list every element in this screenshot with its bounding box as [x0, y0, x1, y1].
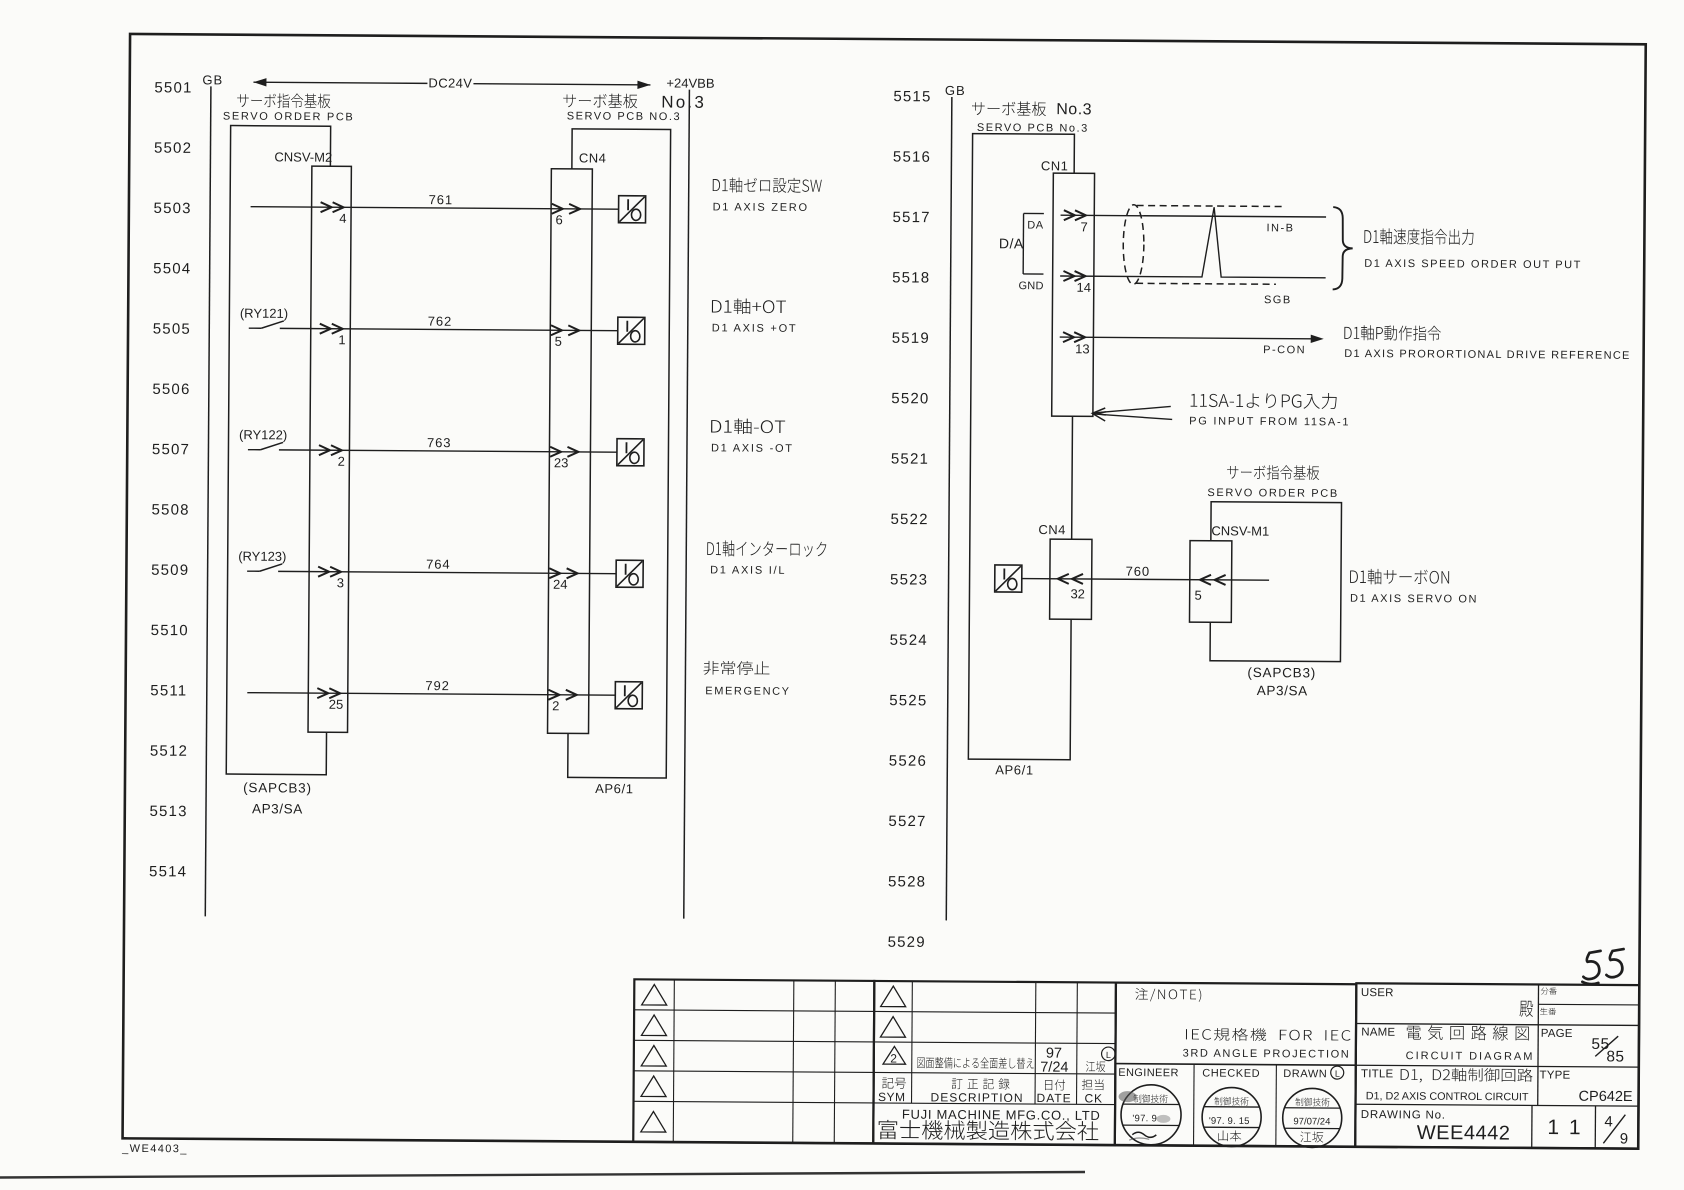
company Fuji Kikai Seizo KK — [879, 1120, 1099, 1141]
svg-text:D1 AXIS I/L: D1 AXIS I/L — [710, 564, 786, 577]
I/O symbol row 763 — [617, 439, 644, 466]
svg-text:AP6/1: AP6/1 — [995, 762, 1034, 777]
label servo PCB No.3 (right) — [972, 101, 1046, 116]
svg-text:L: L — [1106, 1050, 1111, 1060]
svg-text:GB: GB — [945, 83, 966, 98]
svg-text:761: 761 — [429, 192, 453, 207]
header DATE — [1045, 1079, 1065, 1090]
arrow chevrons into CNSV-M2 pin 3 — [318, 567, 341, 577]
svg-text:3RD ANGLE PROJECTION: 3RD ANGLE PROJECTION — [1183, 1048, 1351, 1061]
svg-text:5517: 5517 — [892, 209, 930, 226]
revision table left — [633, 979, 874, 1143]
svg-text:(RY122): (RY122) — [239, 427, 287, 442]
I/O symbol wire 760 — [995, 565, 1022, 592]
svg-text:CN4: CN4 — [579, 150, 607, 165]
arrow chevrons into CNSV-M2 pin 25 — [317, 688, 340, 698]
revision CK Esaka — [1086, 1061, 1105, 1072]
svg-text:D1 AXIS ZERO: D1 AXIS ZERO — [713, 201, 809, 214]
svg-text:5: 5 — [555, 334, 562, 349]
svg-text:PAGE: PAGE — [1541, 1028, 1573, 1040]
arrow chevrons into CNSV-M2 pin 2 — [319, 445, 342, 455]
svg-text:D1, D2 AXIS CONTROL CIRCUIT: D1, D2 AXIS CONTROL CIRCUIT — [1366, 1090, 1529, 1103]
label servo PCB No.3 (left) — [563, 93, 637, 108]
label D1 axis +OT — [712, 298, 786, 314]
arrow chevrons CN4 pin 32 — [1058, 574, 1083, 584]
svg-text:AP3/SA: AP3/SA — [252, 801, 303, 816]
header DESCRIPTION — [952, 1078, 1010, 1089]
wire 764 — [278, 571, 616, 573]
svg-text:5515: 5515 — [893, 88, 931, 105]
wire +24VBB bus (left vertical) — [684, 90, 690, 919]
svg-text:USER: USER — [1361, 987, 1394, 999]
svg-text:97/07/24: 97/07/24 — [1293, 1116, 1330, 1127]
connector CNSV-M2 — [308, 166, 351, 732]
svg-text:NAME: NAME — [1361, 1027, 1395, 1039]
wire 792 — [247, 693, 615, 696]
connector CN4 (right) — [1050, 539, 1092, 619]
svg-text:6: 6 — [555, 212, 562, 227]
svg-text:EMERGENCY: EMERGENCY — [705, 685, 790, 698]
svg-text:5503: 5503 — [154, 200, 192, 217]
svg-text:TYPE: TYPE — [1539, 1069, 1570, 1081]
note block — [1115, 983, 1357, 1147]
svg-text:14: 14 — [1077, 280, 1092, 295]
svg-text:23: 23 — [554, 455, 569, 470]
wire GB bus (left vertical) — [205, 86, 211, 916]
svg-text:760: 760 — [1126, 564, 1150, 579]
svg-text:5512: 5512 — [150, 743, 188, 760]
arrow chevrons into CNSV-M2 pin 1 — [320, 324, 343, 334]
svg-text:CNSV-M2: CNSV-M2 — [274, 149, 332, 164]
left line numbers 5501-5514 — [149, 79, 193, 880]
svg-text:CK: CK — [1085, 1091, 1103, 1105]
svg-text:DRAWING No.: DRAWING No. — [1361, 1109, 1446, 1122]
svg-text:AP6/1: AP6/1 — [595, 781, 634, 796]
svg-text:25: 25 — [329, 697, 344, 712]
svg-text:7/24: 7/24 — [1040, 1060, 1068, 1076]
arrow chevrons CNSV-M1 pin 5 — [1200, 575, 1226, 585]
svg-text:D1 AXIS +OT: D1 AXIS +OT — [712, 322, 798, 335]
svg-text:5502: 5502 — [154, 140, 192, 157]
svg-text:762: 762 — [428, 314, 452, 329]
svg-text:(SAPCB3): (SAPCB3) — [243, 780, 312, 795]
brace speed order output — [1333, 207, 1353, 290]
arrow chevrons into CN4 pin 23 — [550, 447, 578, 457]
arrow chevrons into CNSV-M2 pin 4 — [321, 202, 344, 212]
svg-text:5506: 5506 — [152, 381, 190, 398]
svg-text:P-CON: P-CON — [1263, 344, 1306, 356]
svg-text:4: 4 — [339, 211, 346, 226]
svg-text:5510: 5510 — [151, 622, 189, 639]
wire 760 — [1022, 579, 1269, 581]
svg-text:792: 792 — [425, 678, 449, 693]
svg-text:D1 AXIS -OT: D1 AXIS -OT — [711, 442, 794, 455]
wire CN1 pin 13 P-CON — [1060, 337, 1312, 339]
label servo order PCB (right) — [1227, 465, 1319, 480]
svg-text:5518: 5518 — [892, 269, 930, 286]
svg-text:32: 32 — [1070, 586, 1085, 601]
svg-text:D1 AXIS SERVO ON: D1 AXIS SERVO ON — [1350, 593, 1478, 606]
svg-text:DA: DA — [1027, 219, 1044, 231]
svg-text:DRAWN: DRAWN — [1283, 1068, 1327, 1080]
revision table main — [873, 981, 1116, 1145]
name circuit diagram jp — [1407, 1025, 1529, 1041]
svg-text:TITLE: TITLE — [1361, 1068, 1394, 1080]
svg-text:CN1: CN1 — [1041, 158, 1069, 173]
label emergency — [703, 661, 769, 675]
circled L mark (drawn) — [1331, 1066, 1344, 1079]
svg-text:No.3: No.3 — [1056, 101, 1092, 118]
wire CN1 pin 7 IN-B — [1061, 215, 1326, 217]
label D1 axis P drive reference — [1344, 325, 1441, 341]
servo PCB No.3 box (left) — [568, 129, 671, 778]
label 11SA-1 PG input (jp) — [1191, 392, 1337, 409]
svg-text:WEE4442: WEE4442 — [1417, 1122, 1511, 1145]
svg-text:CHECKED: CHECKED — [1202, 1067, 1260, 1079]
svg-text:+24VBB: +24VBB — [666, 76, 714, 91]
servo order PCB box (right) — [1210, 502, 1341, 662]
engineer/checked/drawn row — [1115, 1064, 1356, 1147]
handwritten page mark 55 — [1582, 949, 1623, 985]
svg-text:763: 763 — [427, 435, 451, 450]
label IEC / 3rd angle projection — [1186, 1028, 1351, 1042]
svg-text:GND: GND — [1018, 280, 1043, 292]
wire 762 — [280, 328, 618, 330]
svg-text:IN-B: IN-B — [1266, 222, 1294, 234]
cable shield (dashed) — [1123, 205, 1144, 285]
header CK — [1082, 1079, 1104, 1090]
svg-text:24: 24 — [553, 577, 568, 592]
revision 2 triangle — [883, 1046, 906, 1064]
svg-text:5519: 5519 — [892, 330, 930, 347]
svg-text:(RY123): (RY123) — [238, 549, 286, 564]
svg-text:CN4: CN4 — [1038, 522, 1066, 537]
arrow chevrons CN1 pin 7 — [1064, 210, 1086, 220]
arrow chevrons into CN4 pin 2 — [548, 690, 576, 700]
svg-text:5529: 5529 — [888, 934, 926, 951]
arrow chevrons CN1 pin 13 — [1063, 332, 1085, 342]
arrow chevrons CN1 pin 14 — [1063, 271, 1085, 281]
wire 763 — [279, 450, 617, 452]
svg-text:5528: 5528 — [888, 873, 926, 890]
svg-text:ENGINEER: ENGINEER — [1118, 1067, 1179, 1079]
I/O symbol row 761 — [619, 196, 646, 223]
label NOTE — [1135, 988, 1201, 1002]
svg-text:SERVO PCB NO.3: SERVO PCB NO.3 — [567, 110, 682, 123]
svg-text:5513: 5513 — [149, 803, 187, 820]
svg-text:D1 AXIS PRORORTIONAL DRIVE REF: D1 AXIS PRORORTIONAL DRIVE REFERENCE — [1344, 348, 1630, 362]
label seiban — [1540, 1008, 1556, 1015]
label dono — [1520, 1001, 1534, 1017]
svg-text:5516: 5516 — [893, 149, 931, 166]
svg-text:2: 2 — [338, 454, 345, 469]
svg-text:5514: 5514 — [149, 863, 187, 880]
svg-text:D/A: D/A — [999, 235, 1024, 251]
arrow chevrons into CN4 pin 24 — [549, 568, 577, 578]
svg-text:5504: 5504 — [153, 260, 191, 277]
label D1 axis speed order output — [1364, 228, 1473, 245]
svg-text:5507: 5507 — [152, 441, 190, 458]
svg-text:7: 7 — [1080, 219, 1087, 234]
svg-text:'97. 9. 15: '97. 9. 15 — [1209, 1116, 1250, 1127]
svg-text:5511: 5511 — [150, 682, 187, 699]
label servo order PCB (left) — [237, 93, 330, 108]
label D1 axis interlock — [707, 540, 826, 557]
svg-text:SYM: SYM — [878, 1090, 906, 1104]
title jp D1 D2 axis control circuit — [1401, 1068, 1533, 1084]
relay contact RY121 — [249, 321, 284, 329]
svg-text:2: 2 — [890, 1052, 897, 1066]
wire GB bus (right vertical) — [946, 97, 952, 920]
svg-text:(SAPCB3): (SAPCB3) — [1247, 665, 1316, 680]
right line numbers 5515-5529 — [888, 88, 932, 951]
svg-text:85: 85 — [1606, 1048, 1624, 1065]
svg-text:PG INPUT FROM 11SA-1: PG INPUT FROM 11SA-1 — [1189, 415, 1350, 428]
connector CN4 (left) — [548, 169, 593, 734]
svg-text:9: 9 — [1620, 1131, 1628, 1148]
relay contact RY122 — [248, 442, 283, 450]
svg-text:5525: 5525 — [889, 692, 927, 709]
arrow chevrons into CN4 pin 5 — [551, 325, 579, 335]
PG input arrows from 11SA-1 — [1093, 406, 1172, 422]
svg-text:4: 4 — [1604, 1113, 1612, 1130]
svg-text:1 1: 1 1 — [1547, 1116, 1582, 1139]
svg-text:SGB: SGB — [1264, 294, 1292, 306]
I/O symbol row 764 — [616, 560, 643, 587]
svg-text:5526: 5526 — [889, 753, 927, 770]
servo PCB No.3 box (right) — [968, 134, 1074, 760]
svg-text:SERVO ORDER PCB: SERVO ORDER PCB — [223, 110, 355, 123]
relay contact RY123 — [247, 564, 282, 572]
svg-text:5523: 5523 — [890, 571, 928, 588]
stamp drawn — [1283, 1088, 1342, 1147]
stamp engineer — [1118, 1085, 1181, 1145]
D/A converter bracket — [1023, 213, 1044, 274]
svg-text:5509: 5509 — [151, 562, 189, 579]
svg-text:764: 764 — [426, 557, 450, 572]
I/O symbol row 792 — [615, 682, 642, 709]
svg-text:No.3: No.3 — [661, 92, 706, 111]
svg-text:5505: 5505 — [153, 321, 191, 338]
svg-text:(RY121): (RY121) — [240, 306, 288, 321]
svg-text:5524: 5524 — [890, 632, 928, 649]
svg-text:3: 3 — [337, 575, 344, 590]
title info block — [1355, 983, 1639, 1148]
label bunban — [1541, 987, 1557, 994]
svg-text:5508: 5508 — [151, 501, 189, 518]
I/O symbol row 762 — [618, 317, 645, 344]
svg-text:2: 2 — [552, 698, 559, 713]
stamp checked — [1202, 1087, 1261, 1146]
svg-text:CP642E: CP642E — [1579, 1089, 1633, 1105]
servo order PCB box (left) — [226, 126, 330, 775]
svg-text:AP3/SA: AP3/SA — [1257, 683, 1308, 698]
svg-text:GB: GB — [202, 72, 223, 87]
revision description — [917, 1057, 1033, 1069]
svg-text:CIRCUIT DIAGRAM: CIRCUIT DIAGRAM — [1406, 1050, 1535, 1063]
svg-text:5501: 5501 — [154, 79, 192, 96]
scan edge line bottom — [0, 1172, 1085, 1178]
svg-text:_WE4403_: _WE4403_ — [121, 1143, 188, 1155]
svg-text:13: 13 — [1075, 341, 1090, 356]
svg-text:D1 AXIS SPEED ORDER OUT PUT: D1 AXIS SPEED ORDER OUT PUT — [1364, 258, 1582, 271]
svg-text:5520: 5520 — [891, 390, 929, 407]
svg-text:L: L — [1335, 1069, 1340, 1079]
circled L mark (CK cell) — [1102, 1047, 1116, 1061]
svg-text:DC24V: DC24V — [428, 75, 472, 90]
wire CN1 pin 14 SGB with crossover peak — [1060, 206, 1326, 278]
connector CN1 — [1052, 173, 1095, 416]
svg-text:DATE: DATE — [1037, 1091, 1072, 1105]
label D1 axis -OT — [711, 418, 785, 434]
svg-text:'97. 9: '97. 9 — [1132, 1113, 1157, 1124]
connector CNSV-M1 — [1189, 541, 1231, 623]
header SYM — [882, 1078, 906, 1089]
svg-text:5522: 5522 — [890, 511, 928, 528]
svg-text:SERVO PCB No.3: SERVO PCB No.3 — [977, 122, 1089, 135]
svg-text:SERVO ORDER PCB: SERVO ORDER PCB — [1207, 487, 1339, 500]
wire 761 — [251, 207, 619, 210]
wire DC24V supply arrow — [253, 78, 650, 89]
svg-text:1: 1 — [338, 332, 345, 347]
svg-text:CNSV-M1: CNSV-M1 — [1211, 523, 1269, 538]
label D1 axis servo on — [1350, 569, 1449, 585]
svg-text:5527: 5527 — [888, 813, 926, 830]
svg-text:5: 5 — [1194, 588, 1201, 603]
arrow chevrons into CN4 pin 6 — [552, 204, 580, 214]
svg-text:DESCRIPTION: DESCRIPTION — [931, 1090, 1024, 1105]
label D1 axis zero — [713, 177, 822, 193]
svg-text:5521: 5521 — [891, 451, 929, 468]
